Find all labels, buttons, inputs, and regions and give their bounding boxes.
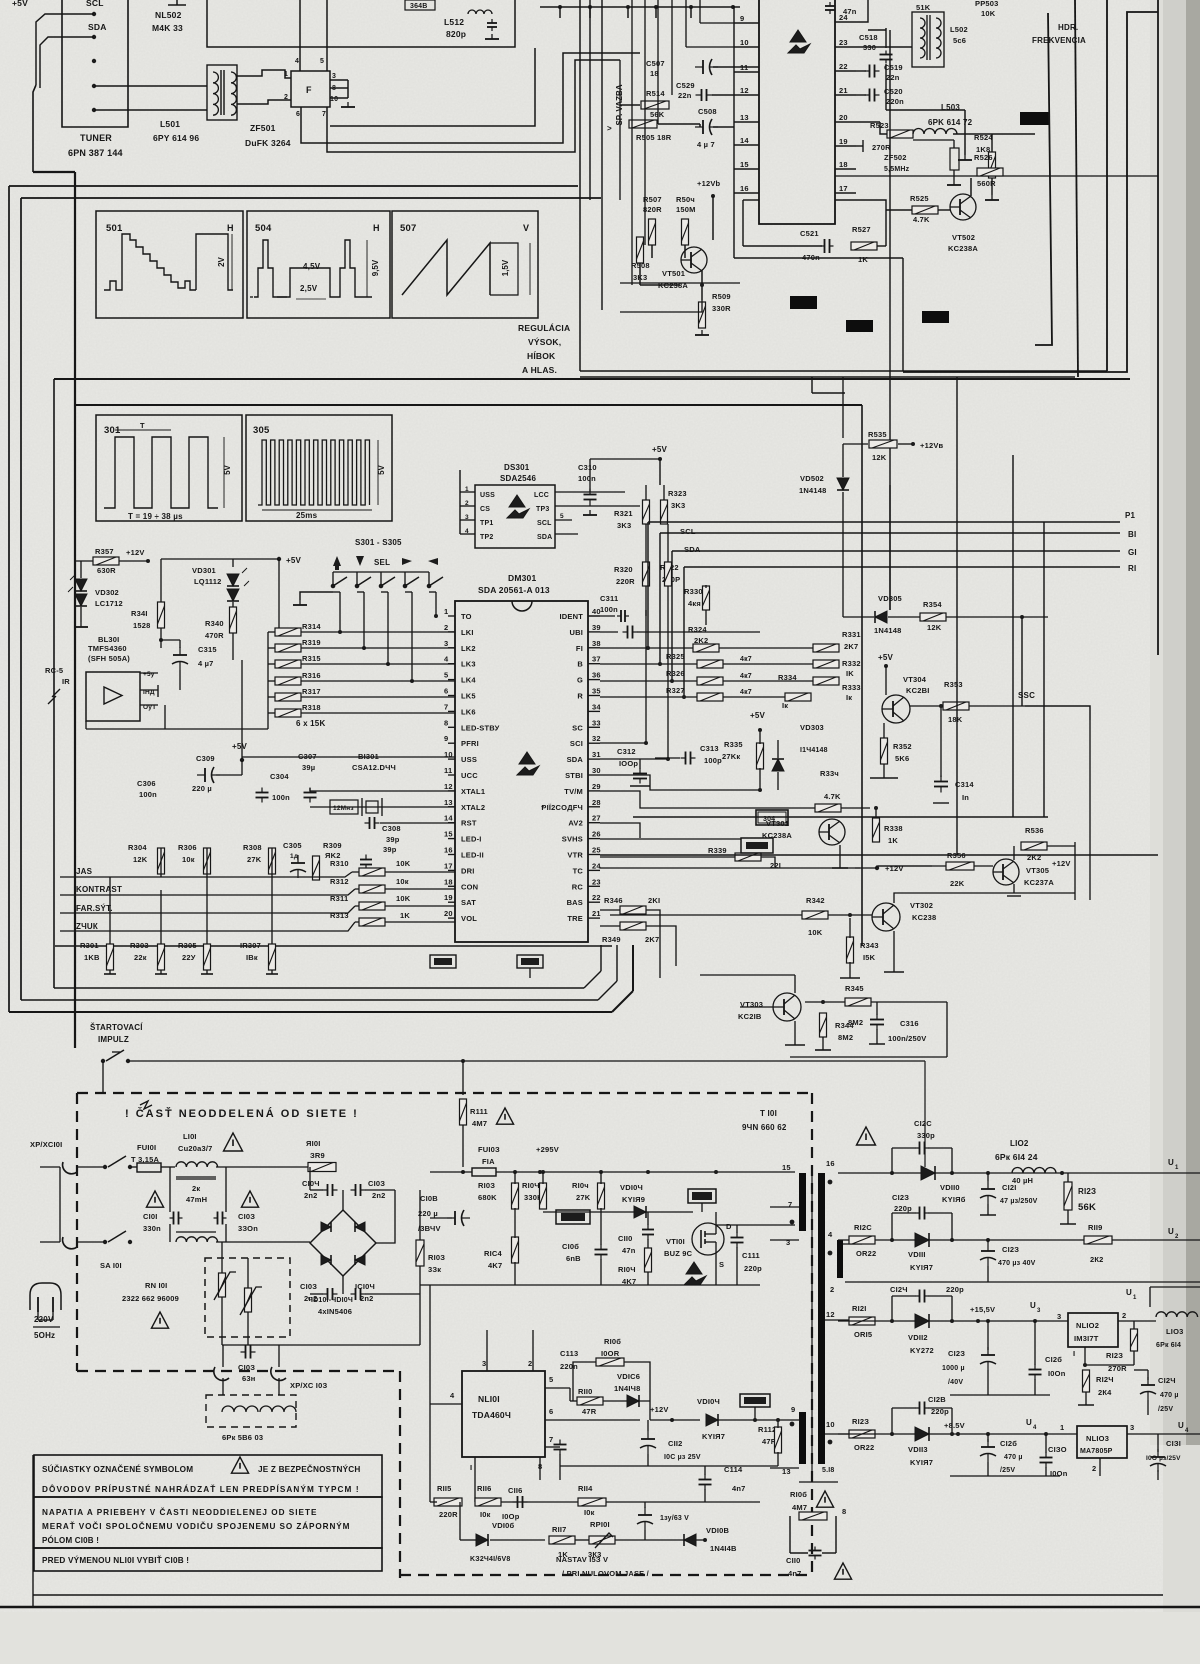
svg-text:C529: C529 [676, 81, 695, 90]
wire vt303 emitter [794, 1021, 796, 1045]
svg-text:XTAL2: XTAL2 [461, 803, 485, 812]
svg-text:63н: 63н [242, 1374, 255, 1383]
transformer pin wires left [770, 1206, 799, 1208]
op-amp U NL101 TDA4605 box [462, 1371, 545, 1457]
startup wire [128, 1060, 925, 1062]
svg-text:2322 662 96009: 2322 662 96009 [122, 1294, 179, 1303]
sawtooth 507 [402, 240, 490, 295]
wire box vt region [946, 1002, 948, 1057]
capacitor C521 470n [743, 245, 822, 247]
wire pin9 sec [795, 1420, 797, 1428]
svg-text:R507: R507 [643, 195, 662, 204]
coil L503 [913, 129, 957, 134]
svg-text:SDA 20561-A 013: SDA 20561-A 013 [478, 585, 550, 595]
svg-text:R346: R346 [604, 896, 623, 905]
svg-text:RІ0б: RІ0б [604, 1337, 621, 1346]
svg-text:RC: RC [572, 882, 584, 891]
wire F pin5 up [326, 0, 328, 71]
svg-text:NASTAV І5З V: NASTAV І5З V [556, 1555, 608, 1564]
svg-text:2K7: 2K7 [844, 642, 858, 651]
RGB rows wires [600, 647, 813, 649]
svg-text:32: 32 [592, 734, 601, 743]
svg-text:5: 5 [444, 671, 448, 680]
svg-text:1528: 1528 [133, 621, 151, 630]
svg-text:22n: 22n [886, 73, 900, 82]
svg-text:SÚČІASTKY OZNAČENÉ SYMВOLOM: SÚČІASTKY OZNAČENÉ SYMВOLOM [42, 1463, 193, 1474]
svg-text:R112: R112 [758, 1425, 776, 1434]
capacitor C520 220n [856, 94, 866, 96]
wire row 1502 [475, 1501, 760, 1503]
svg-text:CІ0З: CІ0З [368, 1179, 385, 1188]
svg-text:22к: 22к [134, 953, 147, 962]
svg-text:NLІО3: NLІО3 [1086, 1434, 1109, 1443]
svg-text:A HLAS.: A HLAS. [522, 365, 557, 375]
svg-text:100n/250V: 100n/250V [888, 1034, 927, 1043]
svg-text:LK4: LK4 [461, 676, 476, 685]
svg-text:PRED VÝMENOU NLІ0І VYBІŤ C: PRED VÝMENOU NLІ0І VYBІŤ CІ0В ! [42, 1554, 189, 1565]
svg-text:14: 14 [444, 814, 453, 823]
switch matrix verticals [339, 592, 341, 632]
svg-text:150M: 150M [676, 205, 696, 214]
svg-text:LQ1112: LQ1112 [194, 577, 221, 586]
svg-text:R525: R525 [910, 194, 929, 203]
capacitor C121 47u 250V [980, 1181, 996, 1204]
waveform 504 pulses [254, 240, 372, 297]
waveform box 507 [392, 211, 538, 318]
capacitor C123 470u 40V [980, 1243, 996, 1266]
svg-text:13: 13 [444, 798, 453, 807]
svg-text:CІ0І: CІ0І [143, 1212, 158, 1221]
svg-text:STBІ: STBІ [565, 771, 583, 780]
svg-text:507: 507 [400, 223, 416, 234]
bus dots [558, 5, 562, 9]
svg-text:10: 10 [330, 96, 338, 103]
wire avs step [600, 823, 640, 838]
svg-text:LK5: LK5 [461, 692, 476, 701]
svg-text:SDA: SDA [88, 22, 107, 32]
ladder common vertical [267, 632, 269, 729]
svg-text:5K6: 5K6 [895, 754, 909, 763]
svg-text:R327: R327 [666, 686, 685, 695]
svg-text:NLІ0І: NLІ0І [478, 1394, 500, 1404]
svg-text:10: 10 [826, 1420, 835, 1429]
svg-text:KYІЯб: KYІЯб [942, 1195, 966, 1204]
vertical drops analog [160, 848, 162, 877]
label 364B [405, 0, 435, 10]
svg-text:І0к: І0к [584, 1508, 595, 1517]
svg-text:12: 12 [826, 1310, 835, 1319]
wire middle verticals 2 [1074, 842, 1076, 900]
resistor R125 56K [1064, 1182, 1072, 1210]
audio section left edge [579, 0, 581, 371]
svg-text:5V: 5V [377, 464, 386, 474]
svg-text:SDA2546: SDA2546 [500, 474, 536, 483]
svg-text:4к7: 4к7 [740, 673, 752, 680]
svg-text:R509: R509 [712, 292, 731, 301]
svg-text:VDІІ3: VDІІ3 [908, 1445, 928, 1454]
svg-text:4кя: 4кя [688, 599, 701, 608]
svg-text:R524: R524 [974, 133, 993, 142]
svg-text:R345: R345 [845, 984, 864, 993]
svg-text:7: 7 [322, 111, 326, 118]
dashed mains box left2 [399, 1371, 401, 1578]
wire +12Vb down [712, 196, 714, 240]
svg-text:4: 4 [465, 528, 469, 535]
wire tuner out 1 [94, 85, 207, 87]
svg-text:MERAŤ VOČІ SPOLOČNEMU VODІČU S: MERAŤ VOČІ SPOLOČNEMU VODІČU SPOJENEMU S… [42, 1520, 350, 1531]
svg-text:LK2: LK2 [461, 644, 476, 653]
svg-text:5V: 5V [223, 464, 232, 474]
svg-text:11: 11 [444, 766, 452, 775]
svg-text:VD301: VD301 [192, 566, 216, 575]
svg-text:4K7: 4K7 [488, 1261, 502, 1270]
svg-text:2KІ: 2KІ [648, 896, 660, 905]
svg-text:IDENT: IDENT [560, 612, 584, 621]
svg-text:TP1: TP1 [480, 520, 493, 527]
svg-text:U: U [1030, 1301, 1036, 1310]
chroma box top inner thick [75, 404, 862, 406]
svg-text:34: 34 [592, 702, 601, 711]
c120 loop [891, 1148, 893, 1173]
input wires underline [60, 876, 112, 878]
svg-text:LED-STВУ: LED-STВУ [461, 723, 500, 732]
svg-text:220 µ: 220 µ [418, 1209, 438, 1218]
svg-text:35: 35 [592, 687, 601, 696]
svg-text:1K: 1K [400, 911, 410, 920]
svg-text:220p: 220p [744, 1264, 762, 1273]
svg-text:R526: R526 [974, 153, 993, 162]
svg-text:KЗ2Ч4І/6V8: KЗ2Ч4І/6V8 [470, 1556, 511, 1563]
svg-text:SDA: SDA [684, 545, 701, 554]
svg-text:220V: 220V [34, 1315, 54, 1324]
degauss coil [222, 1406, 258, 1412]
svg-text:NLІО2: NLІО2 [1076, 1321, 1099, 1330]
dim arrow 501 [231, 234, 233, 290]
svg-text:SCL: SCL [86, 0, 104, 8]
svg-text:KC2ІВ: KC2ІВ [738, 1012, 762, 1021]
svg-text:100n: 100n [272, 793, 290, 802]
svg-text:/40V: /40V [948, 1379, 963, 1386]
svg-text:9: 9 [740, 14, 744, 23]
svg-text:16: 16 [444, 846, 453, 855]
svg-text:1N4148: 1N4148 [799, 486, 826, 495]
wire vt301 emitter [839, 845, 841, 868]
NL102 out wire [1118, 1320, 1156, 1322]
svg-text:22n: 22n [678, 91, 692, 100]
svg-text:VDІ0Ч: VDІ0Ч [697, 1397, 720, 1406]
svg-text:NAPATІA A PRІEBEHY V ČASTІ NEO: NAPATІA A PRІEBEHY V ČASTІ NEODDІELENEJ … [42, 1506, 317, 1517]
svg-text:15: 15 [782, 1163, 791, 1172]
sec gnd rail U1 U2 [845, 1281, 1200, 1283]
svg-text:R311: R311 [330, 894, 348, 903]
svg-text:SAT: SAT [461, 898, 476, 907]
U1 rail [838, 1172, 921, 1174]
svg-text:2V: 2V [217, 256, 226, 266]
svg-text:C519: C519 [884, 63, 903, 72]
svg-text:26: 26 [592, 830, 601, 839]
svg-text:SC: SC [572, 723, 583, 732]
capacitor C131 100u 25V [1150, 1449, 1166, 1472]
svg-text:10K: 10K [981, 9, 996, 18]
svg-text:39: 39 [592, 623, 601, 632]
audio section bottom second line [580, 376, 1075, 378]
dashed mains box top [77, 1092, 812, 1094]
svg-text:RІ2Ч: RІ2Ч [1096, 1375, 1114, 1384]
svg-text:M4K 33: M4K 33 [152, 23, 183, 33]
svg-text:RІ2З: RІ2З [1078, 1187, 1096, 1196]
svg-text:U: U [1126, 1288, 1132, 1297]
resistor R316 15K [275, 677, 301, 685]
svg-text:ОR22: ОR22 [856, 1249, 876, 1258]
svg-text:U: U [1168, 1158, 1174, 1167]
wire vt305 collector [1013, 846, 1015, 860]
D301 right pins [555, 519, 572, 521]
arrow down [356, 556, 364, 566]
svg-text:3: 3 [332, 73, 336, 80]
waveform box 301 [96, 415, 242, 521]
svg-text:501: 501 [106, 223, 123, 234]
svg-text:R313: R313 [330, 911, 349, 920]
wire xtal rows [242, 756, 455, 758]
svg-text:28: 28 [592, 798, 601, 807]
outer bus line 2 [21, 197, 601, 199]
svg-text:ZF501: ZF501 [250, 123, 276, 133]
svg-text:25ms: 25ms [296, 511, 318, 520]
svg-text:1N4І4В: 1N4І4В [710, 1544, 737, 1553]
svg-text:270R: 270R [872, 143, 891, 152]
svg-text:R354: R354 [923, 600, 942, 609]
svg-text:24: 24 [592, 861, 601, 870]
IR triangle [104, 687, 122, 704]
svg-text:RІ0Ч: RІ0Ч [618, 1265, 636, 1274]
svg-text:27Kк: 27Kк [722, 752, 740, 761]
svg-text:H: H [227, 223, 234, 233]
diode VD111 KY197 [915, 1233, 929, 1247]
svg-text:33: 33 [592, 718, 601, 727]
svg-text:47n: 47n [843, 7, 857, 16]
wire connector2 down [529, 968, 531, 978]
waveform 301 square wave [104, 437, 218, 508]
svg-text:+12V: +12V [650, 1405, 669, 1414]
svg-text:2: 2 [465, 500, 469, 507]
svg-text:31: 31 [592, 750, 601, 759]
svg-text:12K: 12K [927, 623, 942, 632]
svg-text:1: 1 [465, 486, 469, 493]
wire bottom return [742, 200, 744, 246]
block corner wire [330, 48, 535, 126]
sub box bottom right [633, 816, 1048, 818]
svg-text:І0О µз/25V: І0О µз/25V [1146, 1455, 1181, 1462]
svg-text:RІ2З: RІ2З [852, 1417, 869, 1426]
svg-text:L502: L502 [950, 25, 968, 34]
wire row 1466 [560, 1465, 778, 1467]
svg-text:/3ВЧV: /3ВЧV [418, 1224, 441, 1233]
svg-text:23: 23 [592, 877, 601, 886]
gnd L502 [958, 155, 972, 160]
svg-text:22: 22 [839, 62, 848, 71]
wire varistor down [221, 1297, 223, 1345]
svg-text:R319: R319 [302, 638, 321, 647]
svg-text:4.7K: 4.7K [913, 215, 930, 224]
svg-text:2n2: 2n2 [304, 1294, 318, 1303]
transformer primary bar bottom [799, 1412, 806, 1464]
resistor R318 15K [275, 709, 301, 717]
svg-text:470 µз 40V: 470 µз 40V [998, 1260, 1036, 1267]
wire L501 to ZF501 [237, 70, 291, 78]
svg-text:CІІ6: CІІ6 [508, 1486, 523, 1495]
degauss coil box dashed [206, 1395, 296, 1427]
svg-text:25: 25 [592, 846, 601, 855]
svg-text:16: 16 [740, 184, 749, 193]
wire F pin4 up [299, 0, 301, 71]
primary ground rail [420, 1284, 760, 1286]
sec gnd rail U3 [950, 1394, 1050, 1396]
svg-text:470 µ: 470 µ [1004, 1454, 1023, 1461]
svg-text:R316: R316 [302, 671, 321, 680]
svg-text:R333: R333 [842, 683, 861, 692]
svg-text:47mH: 47mH [186, 1195, 207, 1204]
svg-text:VT302: VT302 [910, 901, 933, 910]
wire r341 node [161, 639, 180, 641]
svg-text:4 µ7: 4 µ7 [198, 659, 214, 668]
left bus wire down [33, 85, 36, 172]
svg-text:CІ0Ч: CІ0Ч [302, 1179, 320, 1188]
svg-text:LED-II: LED-II [461, 851, 484, 860]
svg-text:6: 6 [549, 1407, 553, 1416]
svg-text:+5V: +5V [878, 653, 894, 662]
svg-text:RІІ6: RІІ6 [477, 1484, 492, 1493]
svg-text:2: 2 [284, 94, 288, 101]
pin rows left [734, 22, 759, 24]
svg-text:1: 1 [284, 71, 288, 78]
svg-text:47n: 47n [622, 1246, 636, 1255]
wire bridge top [342, 1190, 344, 1210]
svg-text:220R: 220R [439, 1510, 458, 1519]
wire FARSYT row [128, 906, 355, 913]
gnd in block [485, 34, 499, 39]
svg-text:4М7: 4М7 [792, 1503, 807, 1512]
svg-text:VT301: VT301 [766, 819, 789, 828]
svg-text:SDA: SDA [537, 534, 552, 541]
svg-text:1KВ: 1KВ [84, 953, 100, 962]
capacitor C316 100n 250V [870, 1015, 884, 1030]
svg-text:19: 19 [839, 137, 848, 146]
wire pin19 stub [856, 145, 863, 147]
svg-text:23: 23 [839, 38, 848, 47]
svg-text:TDA460Ч: TDA460Ч [472, 1410, 511, 1420]
wire vt303 collector [794, 975, 796, 993]
svg-text:5,5MHz: 5,5MHz [884, 166, 910, 173]
wire ir out [164, 705, 166, 729]
svg-text:REGULÁCIA: REGULÁCIA [518, 323, 570, 333]
svg-text:VDІІІ: VDІІІ [908, 1250, 926, 1259]
svg-text:KYІЯ7: KYІЯ7 [702, 1432, 725, 1441]
black box prim [688, 1189, 716, 1203]
svg-text:VDІ0В: VDІ0В [706, 1526, 729, 1535]
svg-text:6Pк 6І4: 6Pк 6І4 [1156, 1342, 1181, 1349]
resistor R314 15K [275, 628, 301, 636]
jog wire [811, 377, 813, 393]
svg-text:R339: R339 [708, 846, 727, 855]
RGB bus verticals [647, 522, 649, 648]
wire bridge right [376, 1190, 395, 1243]
svg-text:DuFK 3264: DuFK 3264 [245, 138, 291, 148]
svg-text:R535: R535 [868, 430, 887, 439]
svg-text:RІ0З: RІ0З [428, 1253, 445, 1262]
svg-text:RІІ0: RІІ0 [578, 1387, 593, 1396]
crystal B301 12MHz [330, 800, 358, 814]
svg-text:R312: R312 [330, 877, 349, 886]
wire vt305 emitter [1013, 884, 1015, 893]
IR receiver box [86, 672, 140, 721]
wire r108 left [752, 1534, 790, 1536]
svg-text:JAS: JAS [76, 867, 93, 876]
L103 coil box [1149, 1287, 1151, 1307]
svg-text:KYІЯ7: KYІЯ7 [910, 1263, 933, 1272]
white connector box psu [556, 1210, 590, 1224]
svg-text:CON: CON [461, 882, 478, 891]
svg-text:І: І [470, 1463, 472, 1472]
svg-text:1N4ІЧ8: 1N4ІЧ8 [614, 1384, 640, 1393]
switch S303 [379, 577, 395, 588]
svg-text:V: V [523, 223, 529, 233]
svg-text:4: 4 [295, 58, 299, 65]
resistor R317 15K [275, 693, 301, 701]
svg-text:22У: 22У [182, 953, 196, 962]
svg-text:PFRІ: PFRІ [461, 739, 479, 748]
svg-text:XP/XCІ0І: XP/XCІ0І [30, 1140, 62, 1149]
bus vertical B [1075, 0, 1078, 377]
wire vt302 collector [894, 893, 1075, 903]
svg-text:2: 2 [1175, 1234, 1179, 1240]
svg-text:+12Vb: +12Vb [697, 179, 721, 188]
svg-text:KC238A: KC238A [948, 244, 978, 253]
svg-text:4n7: 4n7 [732, 1484, 746, 1493]
svg-text:RC-5: RC-5 [45, 666, 63, 675]
svg-text:R357: R357 [95, 547, 114, 556]
svg-text:CІІ0: CІІ0 [618, 1234, 633, 1243]
svg-text:JE Z BEZPEČNOSTNÝCH: JE Z BEZPEČNOSTNÝCH [258, 1463, 361, 1474]
wire pin18 long [835, 175, 1158, 177]
wire vt302 emitter [893, 931, 895, 972]
capacitor C103 63n [241, 1346, 256, 1359]
svg-text:C507: C507 [646, 59, 665, 68]
svg-text:CІ2С: CІ2С [914, 1119, 932, 1128]
black connector box 2 [790, 296, 817, 309]
bus stub 2 [589, 7, 591, 18]
bus stub 4 [655, 7, 657, 18]
wire pin23 [856, 46, 912, 48]
waveform 501 pulse [196, 234, 233, 290]
svg-text:USS: USS [461, 755, 477, 764]
svg-text:ІМ3І7T: ІМ3І7T [1074, 1334, 1099, 1343]
D301 left pins [460, 491, 475, 493]
svg-text:20: 20 [839, 113, 848, 122]
svg-text:FREKVENCIA: FREKVENCIA [1032, 36, 1086, 45]
svg-text:KYІЯ9: KYІЯ9 [622, 1195, 645, 1204]
svg-text:R301: R301 [80, 941, 99, 950]
svg-text:40 µН: 40 µН [1012, 1176, 1033, 1185]
svg-text:5c6: 5c6 [953, 36, 966, 45]
svg-text:18K: 18K [948, 715, 963, 724]
svg-text:VT305: VT305 [1026, 866, 1049, 875]
svg-text:470n: 470n [802, 253, 820, 262]
svg-text:R: R [577, 692, 583, 701]
svg-text:CІ0З: CІ0З [238, 1212, 255, 1221]
svg-text:UBІ: UBІ [569, 628, 583, 637]
svg-text:/25V: /25V [1158, 1406, 1173, 1413]
bus stub 5 [690, 7, 692, 18]
